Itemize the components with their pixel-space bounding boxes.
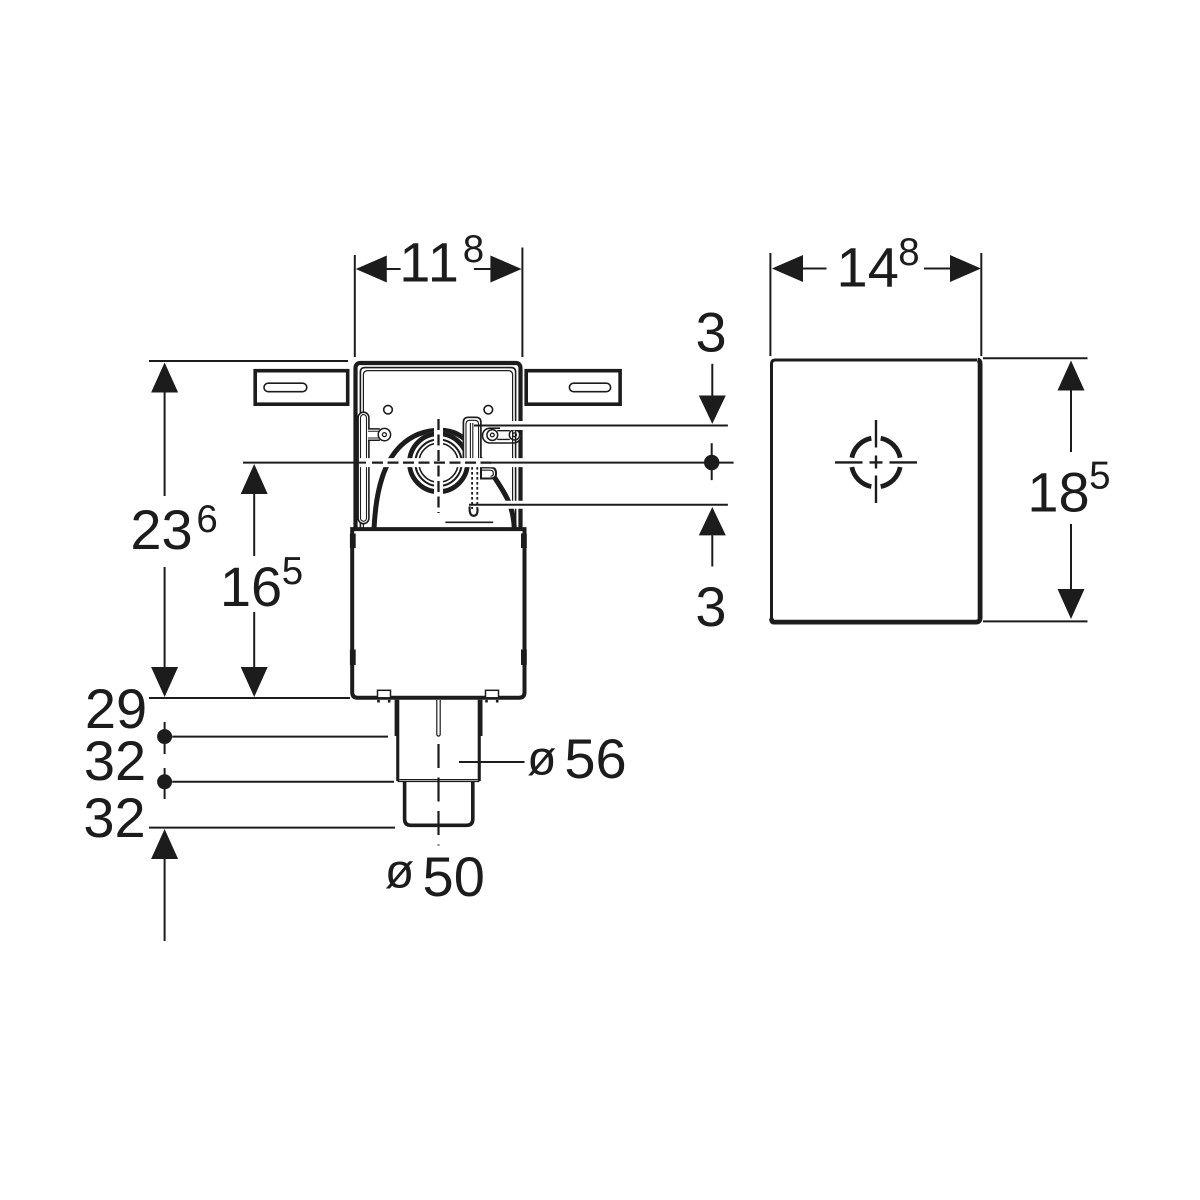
filler valve tube	[463, 417, 482, 467]
outlet pipe d56 wall left	[395, 700, 400, 781]
dim 29 line	[149, 697, 350, 699]
box side tab lower-left	[350, 650, 356, 666]
dim 32c stem	[164, 859, 166, 941]
dim 32a dot line	[164, 722, 166, 754]
foot right	[486, 690, 499, 698]
svg-text:8: 8	[463, 228, 484, 271]
white halo leader 3	[483, 501, 735, 509]
white halo center vertical	[434, 419, 443, 514]
svg-text:50: 50	[423, 845, 485, 908]
dim 118 arrow left	[356, 256, 387, 283]
outlet pipe d56 wall right	[478, 700, 483, 781]
leader line 2 left	[243, 462, 366, 464]
box side tab lower-right	[521, 650, 527, 666]
flush valve seat circle	[407, 431, 470, 494]
plate crosshair circle	[852, 438, 900, 486]
pipe bore lines	[437, 700, 440, 735]
dim 236 line	[164, 391, 166, 668]
clip wall nub	[355, 417, 358, 422]
screw hole left	[384, 405, 393, 414]
dim 118 line	[386, 268, 491, 270]
dim 148 ext line right	[980, 253, 982, 356]
svg-text:11: 11	[399, 231, 460, 294]
svg-text:56: 56	[564, 727, 626, 790]
lever bone capsule	[483, 428, 522, 443]
svg-text:32: 32	[83, 786, 145, 849]
box side tab upper-left	[350, 534, 356, 549]
dim 3 bottom stem	[711, 535, 713, 566]
dim 236 arrow bottom (shared with 29)	[151, 667, 178, 697]
svg-text:5: 5	[1089, 455, 1110, 498]
svg-text:18: 18	[1027, 461, 1089, 524]
leader line 3	[469, 504, 728, 506]
actuator plate (side view)	[772, 360, 978, 619]
svg-text:32: 32	[84, 729, 146, 792]
dim 185 ext line top	[983, 357, 1088, 359]
dim 3 bottom arrow	[699, 507, 726, 535]
dim 32c line	[149, 827, 395, 829]
lower cistern box	[352, 529, 524, 698]
white halo leader 1	[500, 421, 740, 430]
centerline horizontal dashed	[372, 461, 491, 463]
dim 148 arrow left	[772, 255, 803, 282]
plate crosshair dashes	[835, 420, 917, 503]
water level mark	[445, 521, 493, 523]
screw hole right	[484, 405, 493, 414]
lever bone link	[487, 430, 520, 441]
supply elbow	[481, 468, 496, 479]
housing inner wall line 1	[360, 368, 515, 529]
dim 3 dot line	[711, 443, 713, 480]
fastening clip capsule left	[358, 412, 369, 524]
cistern housing outer wall	[356, 363, 521, 529]
trap dome arch	[374, 430, 514, 529]
pipe shoulder	[398, 780, 480, 782]
dim 236 arrow top	[151, 363, 178, 393]
mounting bracket left	[255, 371, 348, 405]
svg-text:ø: ø	[527, 733, 556, 786]
dim 32b line	[172, 781, 394, 783]
dim 148 ext line left	[769, 253, 771, 356]
svg-text:23: 23	[130, 498, 192, 561]
leader line 1	[474, 425, 728, 427]
dim 32a line	[172, 736, 388, 738]
box side tab upper-right	[521, 534, 527, 549]
dim 32b dot	[157, 774, 172, 789]
clip T-arm	[368, 428, 391, 440]
svg-text:16: 16	[220, 555, 282, 618]
dim 118 ext line right	[521, 248, 523, 358]
housing inner wall line 2	[363, 371, 512, 529]
dim 32b dot line	[164, 768, 166, 799]
dim 32c arrow	[151, 829, 178, 859]
bracket slot left	[264, 383, 307, 392]
dim 3 dot	[704, 455, 719, 470]
mounting bracket right	[526, 371, 620, 405]
flexible hose dashed	[472, 467, 477, 509]
dim 118 arrow right	[490, 256, 521, 283]
svg-text:3: 3	[696, 301, 727, 364]
pipe centerline dashed	[437, 744, 439, 846]
svg-text:ø: ø	[385, 846, 414, 899]
dim 236 ext line top	[149, 360, 348, 362]
foot left	[378, 690, 391, 698]
white halo center horizontal	[360, 458, 500, 467]
dim 165 line	[253, 493, 255, 668]
svg-text:5: 5	[282, 550, 303, 593]
hose hook	[470, 507, 478, 516]
dim 32a dot	[157, 729, 172, 744]
svg-text:3: 3	[695, 575, 726, 638]
dim 165 arrow bottom	[241, 667, 268, 697]
dim 185 ext line bottom	[983, 620, 1088, 622]
svg-text:6: 6	[196, 498, 217, 541]
dim 165 arrow top	[241, 464, 268, 494]
bracket slot right	[569, 383, 610, 392]
dim 118 ext line left	[354, 255, 356, 357]
dim 185 arrow top	[1058, 361, 1085, 391]
svg-text:14: 14	[837, 235, 899, 298]
dim 148 arrow right	[950, 255, 981, 282]
dim 148 line	[802, 268, 951, 270]
dim 185 line	[1070, 389, 1072, 590]
outlet pipe d50	[405, 782, 473, 826]
dim 3 top arrow	[699, 396, 726, 424]
centerline vertical dashed	[437, 419, 439, 513]
svg-text:8: 8	[898, 231, 919, 274]
dim 3 top stem	[711, 364, 713, 396]
leader d56	[459, 761, 525, 763]
dim 185 arrow bottom	[1058, 589, 1085, 619]
leader line 2 right	[489, 462, 734, 464]
white halo leader 2 right	[489, 458, 740, 467]
